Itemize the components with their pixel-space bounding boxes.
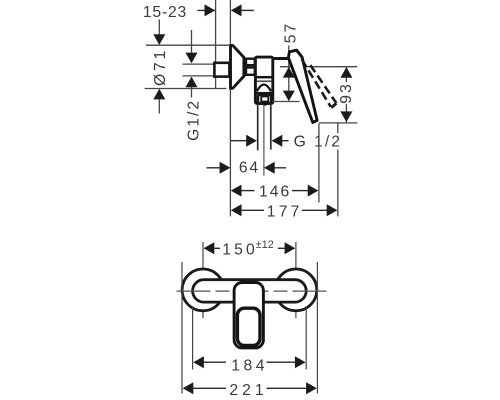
adapter block upper: [246, 59, 255, 65]
dia71 top extension line: [146, 44, 229, 46]
dim 184 right arrow: [295, 356, 306, 368]
svg-text:Ø71: Ø71: [152, 48, 169, 86]
wall line left (x=215.6): [215, 0, 217, 63]
dim 150 right arrow: [285, 242, 296, 254]
dim 221 right arrow: [306, 382, 317, 394]
right escutcheon circle: [275, 269, 317, 311]
dia71 down arrow: [153, 34, 165, 45]
svg-text:146: 146: [259, 183, 291, 200]
dim 93 line upper: [345, 67, 347, 82]
outlet outer: [258, 95, 271, 104]
dim 57 up arrow: [283, 67, 295, 78]
dim 150 left arrow: [204, 242, 215, 254]
horizontal centerline: [177, 290, 328, 292]
svg-text:G1/2: G1/2: [186, 99, 203, 141]
dim 184 left arrow: [193, 356, 204, 368]
lever dashed upper edge: [310, 65, 336, 103]
dim 184 right extension line: [305, 306, 307, 370]
dim 146 left arrow: [231, 185, 242, 197]
dim 150 wire right: [278, 247, 286, 249]
handle grip front: [237, 308, 260, 345]
dim 93 up arrow: [340, 67, 352, 78]
dim 146 right extension line: [318, 124, 320, 203]
extension line y101.5: [272, 101, 300, 103]
lever dashed foot: [331, 103, 336, 107]
dim 64 tail wire left: [207, 167, 220, 169]
dia71 bottom leader wire: [158, 99, 160, 114]
G1/2 left lower leader wire: [191, 87, 193, 98]
dim 146 right arrow: [308, 185, 319, 197]
dia71 bottom extension line: [145, 88, 227, 90]
dim 64 arrow pointing right: [220, 162, 231, 174]
svg-text:177: 177: [267, 203, 303, 220]
adapter block lower: [246, 68, 255, 75]
body section line: [256, 76, 271, 79]
svg-text:15-23: 15-23: [143, 4, 187, 21]
svg-text:G 1/2: G 1/2: [294, 133, 342, 150]
dim 177 right arrow: [327, 204, 338, 216]
svg-text:184: 184: [231, 358, 268, 375]
escutcheon bell: [231, 45, 244, 88]
outlet nipple blob: [263, 102, 267, 106]
extension line y66.7: [280, 66, 357, 68]
G1/2 right label: [292, 133, 345, 151]
lever handle solid: [288, 50, 317, 122]
G1/2 right arrow pointing right: [246, 135, 257, 147]
handle base front: [234, 283, 263, 348]
dim 93 bottom extension line: [319, 122, 357, 124]
dim 184 wire left: [203, 361, 226, 363]
dia71 up arrow: [153, 89, 165, 100]
svg-text:64: 64: [239, 160, 260, 177]
dimension 15-23 right tail wire: [241, 9, 254, 11]
G1/2 left down arrow: [186, 53, 198, 64]
outlet inner: [261, 96, 268, 101]
pipe right wire: [270, 105, 272, 150]
nipple top extension wire: [183, 63, 215, 65]
dim 64 arrow pointing left: [264, 162, 275, 174]
dim 221 left arrow: [183, 382, 194, 394]
wall line right (x=230.4): [229, 0, 231, 45]
dim 177 right extension line: [337, 123, 339, 133]
dimension 15-23 left tail wire: [198, 9, 216, 11]
pipe centerline: [263, 105, 265, 176]
left escutcheon circle: [182, 269, 224, 311]
dim 93 line lower: [345, 104, 347, 122]
G1/2 left up arrow: [186, 77, 198, 88]
dim 57 down arrow: [283, 91, 295, 102]
dimension 15-23 right arrow: [205, 4, 216, 16]
body thin line: [256, 80, 271, 82]
lever dashed lower edge: [302, 60, 331, 107]
dim 221 right extension line: [316, 262, 318, 394]
valve body: [255, 57, 272, 103]
dim 177 left arrow: [231, 204, 242, 216]
G1/2 right tail wire right: [282, 140, 289, 142]
svg-text:93: 93: [338, 82, 355, 103]
dim 184 wire right: [267, 361, 296, 363]
svg-text:221: 221: [229, 382, 267, 399]
dim 177 left wire: [241, 209, 264, 211]
pipe left wire: [257, 105, 259, 151]
dim 150 left extension centerline: [202, 242, 204, 318]
dim 221 left extension line: [181, 262, 183, 394]
svg-text:±12: ±12: [256, 239, 274, 251]
dim 146 right wire: [292, 190, 308, 192]
body lower section line: [256, 92, 272, 95]
dim 57 line: [288, 46, 290, 100]
cartridge dome arc: [257, 85, 271, 92]
pivot platform wire: [272, 57, 288, 60]
dim 64 tail wire right: [274, 167, 286, 169]
threaded nipple: [214, 63, 229, 77]
nipple bottom extension wire: [183, 75, 215, 77]
dimension 15-23 left arrow: [231, 4, 242, 16]
dia71 top leader wire: [158, 20, 160, 37]
G1/2 left leader wire upper: [191, 30, 193, 55]
dim 221 wire right: [267, 387, 307, 389]
svg-text:150: 150: [222, 241, 258, 258]
dim 150 right extension centerline: [295, 242, 297, 318]
dim 146 left wire: [241, 190, 255, 192]
dim 221 wire left: [193, 387, 226, 389]
dim 184 left extension line: [192, 306, 194, 370]
dim 93 down arrow: [340, 111, 352, 122]
dim 177 right wire: [302, 209, 328, 211]
G1/2 right tail wire left: [231, 140, 248, 142]
G1/2 right arrow pointing left: [272, 135, 283, 147]
dim 150 wire left: [214, 247, 220, 249]
svg-text:57: 57: [282, 22, 299, 43]
body bar: [193, 280, 307, 302]
